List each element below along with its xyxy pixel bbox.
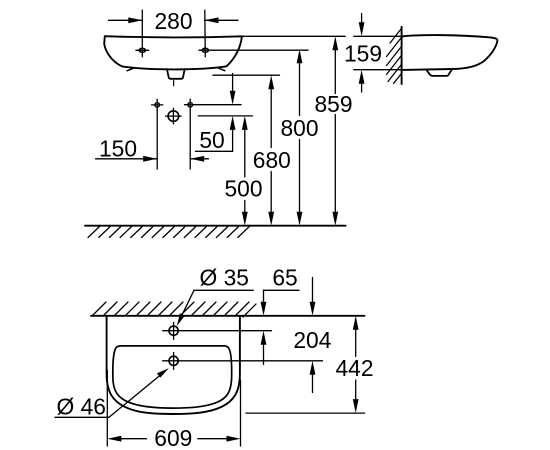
floor hatching xyxy=(88,227,249,238)
plan view outer outline xyxy=(107,316,240,414)
svg-text:Ø 35: Ø 35 xyxy=(200,265,249,291)
plan view wall hatching xyxy=(93,302,256,317)
extension line right cross down xyxy=(189,110,191,169)
dim 800 line xyxy=(299,62,301,213)
dim 50 shelf xyxy=(196,150,233,152)
svg-text:204: 204 xyxy=(293,327,331,353)
extension line basin top to dim 859 xyxy=(243,35,345,37)
side view wall line xyxy=(401,27,403,84)
front view drain stub xyxy=(167,69,185,79)
plan view inner outline xyxy=(113,346,232,408)
plan faucet hole xyxy=(169,326,178,335)
dim 680 line xyxy=(270,88,272,213)
svg-text:500: 500 xyxy=(224,176,262,202)
dim 159 up arrow xyxy=(361,83,363,93)
svg-text:442: 442 xyxy=(335,355,373,381)
dim 609 extension left xyxy=(106,370,108,446)
dim 50 down arrow xyxy=(232,74,234,93)
label diameter 46 leader arrow xyxy=(109,373,164,418)
svg-text:Ø 46: Ø 46 xyxy=(57,394,106,420)
dim 500 line xyxy=(244,129,246,214)
dim 609 right arrow xyxy=(198,438,228,440)
svg-text:65: 65 xyxy=(272,265,297,291)
dim 65 down arrow xyxy=(263,290,265,303)
svg-text:150: 150 xyxy=(99,135,137,161)
mounting hole right xyxy=(202,48,208,52)
front view bottom tick left xyxy=(127,68,133,71)
label diameter 35 leader arrow xyxy=(181,290,195,318)
extension line faucet hole level xyxy=(163,330,272,332)
dim 150 right arrow xyxy=(190,158,208,160)
side view basin profile xyxy=(402,35,497,70)
svg-text:280: 280 xyxy=(154,8,192,34)
dim 159 extension top xyxy=(354,35,402,37)
dim 280 line right arrow xyxy=(205,19,239,21)
floor line xyxy=(85,225,346,227)
plan view wall line xyxy=(91,315,365,317)
side view drain stub xyxy=(427,70,452,76)
dim 159 down arrow xyxy=(361,14,363,24)
extension line left cross down xyxy=(156,111,158,170)
dim 150 left arrow xyxy=(96,158,158,160)
dim 609 extension right xyxy=(240,380,242,446)
svg-text:680: 680 xyxy=(253,147,291,173)
dim 204 up arrow xyxy=(312,374,314,393)
mounting hole left xyxy=(139,48,145,52)
front view drain center line xyxy=(173,81,175,86)
side view wall hatching xyxy=(387,29,402,84)
svg-text:50: 50 xyxy=(199,127,224,153)
dim 204 down arrow xyxy=(312,278,314,304)
extension line drain stub level xyxy=(213,74,280,76)
label diameter 35 shelf xyxy=(194,289,253,291)
svg-text:859: 859 xyxy=(314,91,352,117)
front view basin outline xyxy=(104,36,242,69)
dim 159 extension bottom xyxy=(354,69,402,71)
dim 65 shelf xyxy=(264,289,300,291)
svg-text:609: 609 xyxy=(154,425,192,450)
dim 280 extension line right xyxy=(204,10,207,57)
dim 609 left arrow xyxy=(120,438,147,440)
front view bottom tick right xyxy=(219,68,225,71)
svg-text:800: 800 xyxy=(280,115,318,141)
extension line drain hole level xyxy=(163,360,323,362)
dim 280 extension line left xyxy=(141,10,143,57)
dim 50 up arrow xyxy=(232,129,234,152)
tap hole cross left xyxy=(155,103,160,108)
plan drain hole xyxy=(169,356,178,365)
dim 280 line left arrow xyxy=(109,19,143,21)
dim 859 line xyxy=(334,49,336,213)
tap center circle xyxy=(168,111,179,122)
dim 65 up arrow xyxy=(263,344,265,365)
label diameter 46 shelf xyxy=(55,416,109,418)
tap hole cross right xyxy=(188,102,193,107)
extension line crosses level xyxy=(185,104,241,106)
svg-text:159: 159 xyxy=(344,41,382,67)
extension line holes level to dim 800 xyxy=(199,49,308,51)
dim 442 line xyxy=(355,329,357,401)
extension line circle level xyxy=(198,115,252,117)
extension line basin bottom level xyxy=(246,412,365,414)
